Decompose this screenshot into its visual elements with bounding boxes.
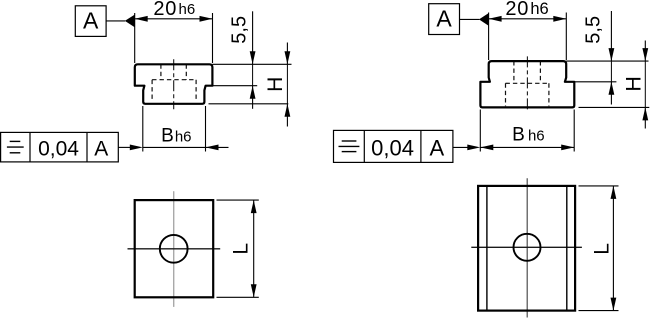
hidden small hole lines (right section) bbox=[506, 61, 549, 106]
leader from tolerance frame with arrow (right) bbox=[453, 146, 469, 148]
dimension 20h6 : right arrowhead bbox=[200, 16, 213, 22]
hole circle (right front view) bbox=[514, 234, 541, 261]
datum filled triangle (right) bbox=[479, 13, 489, 26]
symmetry symbol (right) bbox=[339, 141, 360, 152]
hole circle bbox=[160, 235, 188, 263]
centerline of hole (left section view) bbox=[173, 59, 175, 109]
svg-text:h6: h6 bbox=[179, 1, 196, 18]
svg-text:0,04: 0,04 bbox=[38, 137, 79, 160]
dim L : extension lines bbox=[217, 199, 259, 201]
svg-text:B: B bbox=[161, 125, 174, 146]
dimension 20h6 : dimension line (right) bbox=[489, 18, 567, 20]
inner edge lines (visible step edges) bbox=[486, 186, 488, 311]
dim L right : extension lines bbox=[579, 185, 619, 187]
centerline of hole (right section view) bbox=[526, 56, 528, 112]
svg-text:20: 20 bbox=[153, 0, 177, 20]
dim 5,5 right : lower dimension line + arrow up bbox=[610, 82, 612, 105]
dim H : top dimension line + arrow down bbox=[286, 43, 288, 65]
datum filled triangle bbox=[125, 15, 135, 28]
svg-text:A: A bbox=[83, 8, 99, 34]
dim B h6 : dimension line bbox=[143, 146, 206, 148]
svg-text:h6: h6 bbox=[530, 0, 548, 18]
svg-text:B: B bbox=[512, 124, 525, 145]
dim B h6 : extension lines bbox=[142, 106, 144, 152]
dim H right : bottom dimension line + arrow up bbox=[644, 107, 646, 128]
svg-text:5,5: 5,5 bbox=[583, 16, 605, 44]
svg-text:A: A bbox=[94, 137, 108, 160]
datum A frame box (right) bbox=[429, 4, 460, 35]
dimension 20h6 : left arrowhead bbox=[135, 16, 148, 22]
svg-text:L: L bbox=[229, 243, 252, 255]
horizontal centerline (right front view) bbox=[471, 246, 582, 248]
dim L right : dimension line with inside arrows bbox=[612, 186, 614, 311]
svg-text:H: H bbox=[264, 77, 287, 92]
hidden small hole lines (left section) bbox=[152, 64, 196, 101]
dim L : dimension line with inside arrows bbox=[253, 200, 255, 297]
svg-text:20: 20 bbox=[505, 0, 529, 20]
vertical centerline (gray) bbox=[173, 191, 175, 307]
dim B h6 : right outside arrowhead with tail bbox=[206, 146, 229, 148]
datum leader line bbox=[106, 20, 125, 22]
dim 5,5 : upper dimension line + arrow down bbox=[252, 11, 254, 64]
vertical centerline (dark gray, right front view) bbox=[526, 178, 528, 317]
part outline (left section view, T-key wide top) bbox=[135, 64, 213, 104]
svg-text:A: A bbox=[436, 6, 452, 32]
dim B h6 right : extension lines bbox=[479, 110, 481, 152]
front view rectangle (right) bbox=[478, 186, 575, 311]
front view rectangle bbox=[135, 200, 214, 297]
svg-text:L: L bbox=[591, 243, 614, 255]
dimension 20h6 : dimension line bbox=[135, 18, 213, 20]
dim B h6 : left outside arrowhead (from tolerance frame leader) bbox=[118, 146, 131, 148]
part outline (right section view, T-nut wide bottom) bbox=[480, 61, 574, 107]
feature control frame (symmetry 0,04 A) box bbox=[1, 132, 119, 162]
svg-text:5,5: 5,5 bbox=[229, 16, 251, 44]
svg-text:h6: h6 bbox=[175, 128, 192, 145]
dim 5,5 right : upper dimension line + arrow down bbox=[610, 11, 612, 61]
symmetry symbol bbox=[7, 141, 24, 152]
feature control frame box (right) bbox=[334, 130, 453, 162]
dimension 20h6 : extension lines bbox=[134, 13, 136, 63]
dim 5,5 right : step extension line bbox=[574, 81, 616, 83]
dim 5,5 : lower dimension line + arrow up bbox=[252, 86, 254, 109]
horizontal centerline bbox=[128, 248, 221, 250]
svg-text:A: A bbox=[430, 136, 445, 161]
dimension 20h6 : extension lines (right) bbox=[488, 13, 490, 61]
dim H : bottom dimension line + arrow up bbox=[286, 104, 288, 127]
dim 5,5 : top extension line (shared with H) bbox=[212, 63, 291, 65]
dim H right : bottom extension line bbox=[579, 106, 650, 108]
datum A frame box bbox=[75, 6, 106, 37]
datum leader line (right) bbox=[460, 18, 480, 20]
svg-text:h6: h6 bbox=[528, 127, 545, 144]
dim B h6 right : dimension line with inside arrows bbox=[480, 146, 574, 148]
svg-text:H: H bbox=[622, 76, 646, 92]
dim H right : top dimension line + arrow down bbox=[644, 41, 646, 62]
svg-text:0,04: 0,04 bbox=[371, 136, 414, 161]
dim 5,5 right : top extension line (shared with H) bbox=[566, 60, 648, 62]
dim H : bottom extension line bbox=[209, 103, 289, 105]
dim 5,5 : step extension line bbox=[212, 85, 257, 87]
